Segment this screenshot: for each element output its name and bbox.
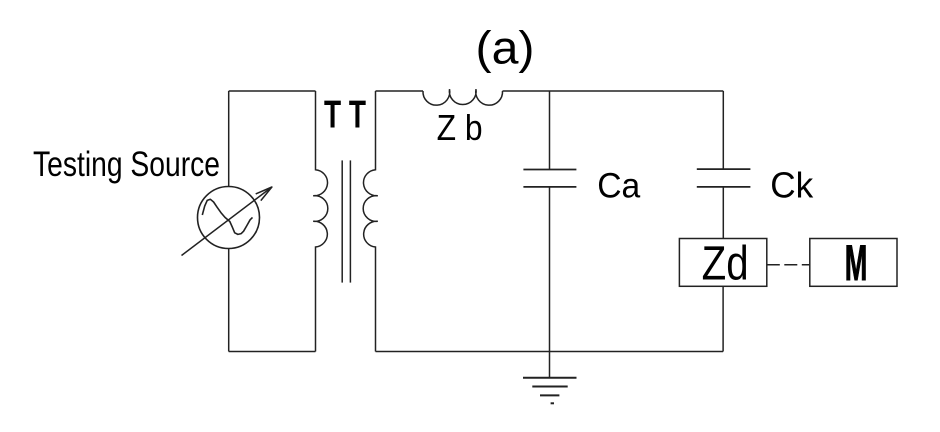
wire: top right segment bbox=[503, 90, 724, 92]
svg-text:M: M bbox=[845, 235, 868, 291]
ground bar 2 bbox=[532, 386, 567, 388]
capacitor Ck bottom plate bbox=[697, 186, 751, 188]
ground bar 3 bbox=[540, 394, 559, 396]
source circle bbox=[198, 187, 260, 249]
svg-text:Ca: Ca bbox=[597, 167, 641, 206]
transformer secondary winding bbox=[363, 91, 378, 352]
transformer core line 1 bbox=[341, 160, 343, 282]
wire: left loop left vertical lower bbox=[228, 249, 230, 352]
svg-text:Testing Source: Testing Source bbox=[33, 144, 220, 184]
dashed link Zd to M bbox=[767, 264, 810, 266]
capacitor Ca lower lead to ground bbox=[549, 187, 551, 378]
svg-text:Ck: Ck bbox=[770, 165, 814, 206]
ground bar 4 bbox=[551, 402, 554, 404]
capacitor Ck upper lead bbox=[722, 91, 724, 169]
capacitor Ca top plate bbox=[523, 169, 576, 171]
wire: left loop bottom bbox=[229, 351, 316, 353]
capacitor Ck top plate bbox=[697, 168, 751, 170]
transformer core line 2 bbox=[349, 160, 351, 282]
svg-text:Zd: Zd bbox=[702, 238, 749, 291]
svg-text:Z b: Z b bbox=[437, 107, 483, 148]
box M bbox=[810, 239, 897, 287]
wire: left loop left vertical upper bbox=[228, 91, 230, 187]
inductor Zb bbox=[423, 89, 503, 105]
capacitor Ck lower lead bbox=[722, 187, 724, 239]
wire: Zd bottom lead bbox=[722, 286, 724, 351]
ground bar 1 bbox=[523, 377, 577, 379]
wire: top left segment bbox=[376, 90, 424, 92]
capacitor Ca bottom plate bbox=[523, 186, 576, 188]
svg-text:(a): (a) bbox=[476, 22, 535, 74]
transformer primary winding bbox=[313, 91, 328, 352]
wire: bottom bbox=[376, 351, 724, 353]
svg-text:T T: T T bbox=[324, 94, 366, 137]
arrow head bbox=[256, 187, 272, 201]
sine wave bbox=[202, 199, 252, 234]
capacitor Ca upper lead bbox=[549, 91, 551, 170]
arrow shaft bbox=[182, 187, 272, 256]
box Zd bbox=[679, 239, 766, 287]
wire: left loop top bbox=[229, 90, 316, 92]
